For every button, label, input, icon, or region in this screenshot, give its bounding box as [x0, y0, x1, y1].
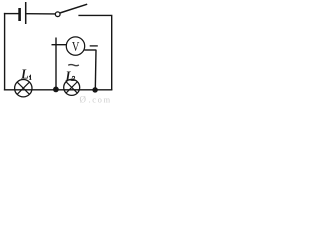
voltmeter right lead wire: [84, 49, 96, 51]
wire left side vertical: [4, 13, 6, 91]
svg-text:.com: .com: [89, 95, 112, 104]
junction node right (bottom wire / voltmeter branch): [92, 87, 98, 93]
junction node left (bottom wire / voltmeter branch): [53, 87, 59, 93]
voltmeter U1 circle: [66, 37, 84, 55]
svg-text:Ø: Ø: [80, 95, 87, 104]
wire voltmeter left branch vertical (plus marker stem): [55, 38, 57, 90]
wire top-left segment: [4, 13, 19, 15]
wire switch to top-right corner and right side down: [78, 15, 111, 90]
lamp L1 cross: [17, 82, 29, 94]
lamp L2 label: [65, 68, 73, 84]
battery B1 short thick plate: [18, 8, 21, 21]
switch S1 pivot circle: [55, 12, 60, 17]
battery B1 long thin plate: [25, 2, 27, 24]
voltmeter left lead wire: [52, 44, 67, 46]
lamp L1 circle: [15, 80, 32, 97]
wire voltmeter right branch vertical: [94, 50, 97, 90]
wire bottom: [4, 89, 113, 91]
stray mark swoosh: [68, 65, 79, 66]
svg-text:L: L: [20, 66, 28, 82]
lamp L2 circle: [64, 79, 80, 95]
lamp L1 label: [20, 66, 28, 82]
lamp L2 cross: [66, 82, 77, 93]
switch S1 arm: [60, 4, 87, 13]
voltmeter minus terminal marker: [90, 45, 98, 47]
wire battery to switch: [26, 13, 55, 15]
svg-text:V: V: [72, 38, 80, 54]
svg-text:L: L: [65, 68, 73, 84]
